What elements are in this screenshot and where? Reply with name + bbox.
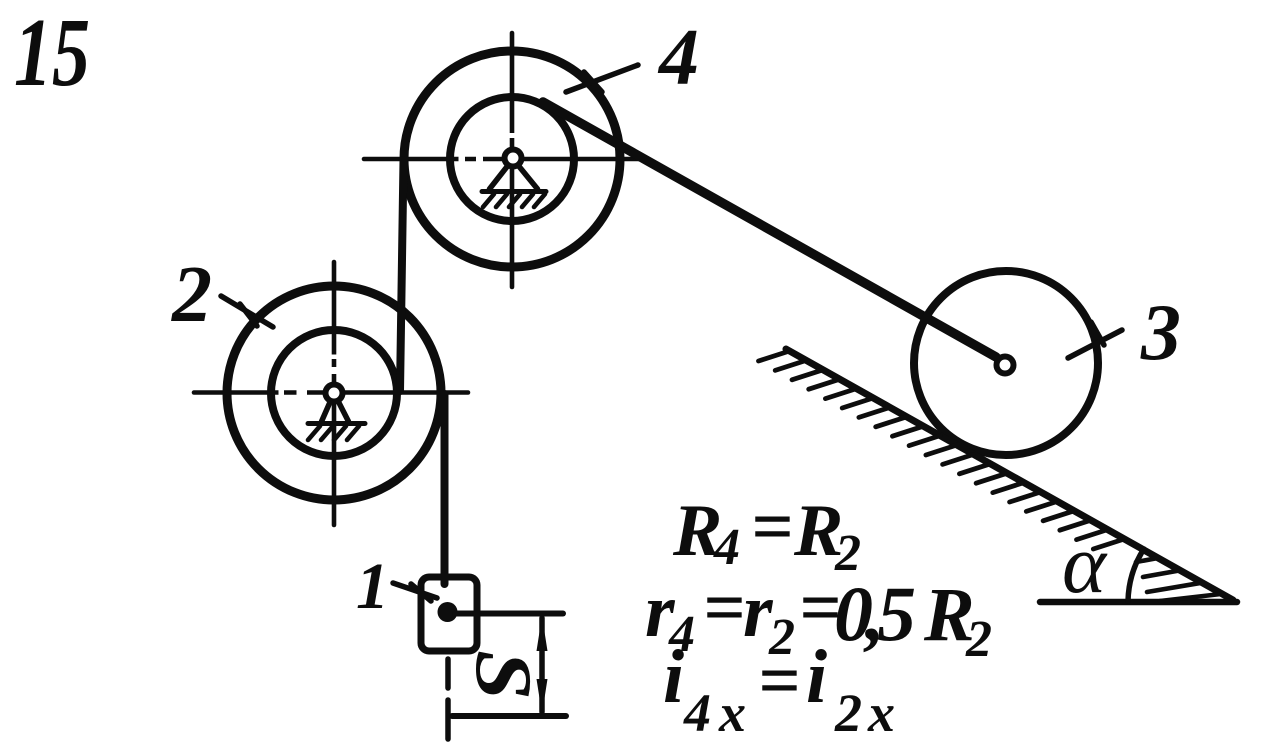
pulley 4 outer circle R4 — [404, 51, 620, 267]
pulley 4 axle pin — [505, 150, 522, 167]
svg-text:2: 2 — [965, 611, 992, 668]
pulley 4 crosshair centerlines — [364, 33, 644, 287]
svg-text:4: 4 — [683, 683, 711, 743]
dashed trajectory line below weight — [445, 659, 451, 739]
svg-text:3: 3 — [1140, 289, 1181, 377]
svg-text:1: 1 — [356, 550, 389, 623]
wheel 3 center hub — [997, 357, 1014, 374]
svg-text:i: i — [663, 635, 684, 719]
svg-text:=: = — [703, 567, 745, 649]
leader tick for label 4 — [584, 72, 602, 92]
pulley 4 inner circle r4 — [450, 97, 574, 221]
leader tick for label 3 — [1091, 322, 1104, 345]
svg-text:0,5: 0,5 — [834, 570, 916, 657]
dimension S extension line top (from block dot) — [455, 611, 563, 617]
leader line for label 4 — [566, 65, 638, 92]
equation line 3: i4x = i2x — [663, 635, 895, 743]
svg-text:=: = — [758, 640, 800, 722]
svg-text:15: 15 — [14, 0, 90, 107]
pulley 2 axle pin — [326, 385, 343, 402]
angle alpha sector hatching — [1136, 558, 1222, 601]
incline hatching — [759, 351, 1125, 549]
pulley 2 support ground line — [308, 421, 365, 426]
wheel 3 circle — [914, 271, 1098, 455]
pulley 2 crosshair centerlines — [194, 262, 468, 525]
pulley 4 support hatching — [483, 194, 545, 207]
pulley 4 centerline gaps — [459, 133, 513, 159]
weight block 1 — [421, 577, 477, 651]
angle alpha arc — [1128, 549, 1144, 601]
dimension S arrowhead down — [537, 679, 548, 714]
pulley 2 inner circle r2 — [271, 330, 397, 456]
equation line 1: R4 = R2 — [672, 486, 861, 582]
svg-text:4: 4 — [657, 14, 699, 102]
pulley 4 support ground line — [482, 189, 546, 194]
ground baseline at incline foot — [1040, 599, 1237, 606]
pulley 2 centerline gaps — [279, 355, 335, 393]
leader tick for label 1 — [411, 584, 431, 601]
leader line for label 2 — [221, 296, 273, 327]
weight block center dot — [438, 602, 458, 622]
svg-text:x: x — [867, 683, 895, 743]
pulley 2 pin support legs — [322, 393, 349, 422]
pulley 4 pin support legs — [490, 159, 538, 189]
equation line 2: r4 = r2 = 0,5 R2 — [645, 567, 992, 668]
svg-text:2: 2 — [834, 683, 862, 743]
svg-text:x: x — [718, 683, 746, 743]
leader line for label 1 — [393, 583, 437, 598]
leader tick for label 2 — [240, 304, 257, 326]
pulley 2 outer circle R2 — [227, 286, 441, 500]
svg-text:S: S — [459, 650, 547, 700]
rope pulley4(r4) to wheel 3 center — [543, 102, 996, 357]
svg-text:2: 2 — [171, 251, 212, 339]
svg-text:i: i — [806, 635, 827, 719]
incline surface line — [786, 349, 1233, 600]
leader line for label 3 — [1068, 330, 1122, 358]
rope pulley2(r2) to pulley4(R4) — [400, 160, 404, 391]
pulley 2 support hatching — [308, 426, 359, 440]
svg-text:=: = — [751, 486, 793, 568]
rope pulley2(R2) down to weight 1 — [441, 394, 449, 584]
dimension S arrow line — [539, 618, 545, 712]
svg-text:α: α — [1062, 518, 1108, 611]
dimension S arrowhead up — [537, 616, 548, 651]
dimension S extension line bottom — [452, 713, 566, 719]
